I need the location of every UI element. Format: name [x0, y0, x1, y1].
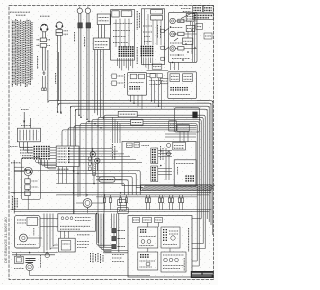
oven lamp circle: [20, 234, 28, 242]
top-right rating plate box 1: [193, 6, 203, 13]
wire E2 leads: [57, 35, 59, 112]
dark component blob: [192, 112, 197, 119]
control resistor R2: [178, 32, 184, 35]
lower right wires: [192, 218, 201, 220]
bus wire y121.5: [150, 122, 199, 267]
M1 label: [87, 208, 89, 213]
TB1 feed wires: [50, 146, 57, 148]
surface unit E1 receptacle blocks: [40, 38, 46, 42]
M2 wires: [27, 176, 29, 179]
row divider wires: [11, 209, 212, 211]
control inner box K2: [186, 25, 195, 31]
surface switch S2 outline: [141, 9, 164, 65]
E1 wire plug ends: [42, 88, 44, 91]
vertical label text mid: [111, 144, 113, 160]
lock wires: [12, 252, 58, 254]
board label text right: [160, 146, 162, 160]
center text columns: [90, 253, 92, 262]
CN wires right: [158, 151, 172, 175]
horizontal wires mid: [14, 170, 96, 172]
oven label text: [33, 228, 35, 236]
diagonal jumper wire: [181, 14, 191, 19]
lower latch box: [58, 214, 96, 231]
cluster C wires: [147, 69, 169, 71]
bus right corner 4: [142, 109, 207, 111]
board top text: [142, 145, 150, 147]
wire SW links: [98, 25, 100, 39]
cluster D contacts: [170, 87, 187, 91]
latch box text: [75, 217, 91, 219]
component row B: [112, 236, 116, 240]
bus label box 2: [131, 120, 144, 125]
junction dots: [170, 20, 196, 63]
top-right small labels: [181, 8, 191, 10]
heater element strip: [93, 164, 96, 175]
surface unit E3 circle: [77, 8, 82, 13]
bus right corner 3: [138, 106, 209, 108]
S2 inner box A: [151, 10, 163, 14]
top-right rating plate box 3: [193, 13, 214, 19]
control drop wires: [170, 62, 172, 70]
left riser wire: [13, 160, 15, 214]
TB1 left wires: [20, 146, 34, 148]
T1 secondary leads: [19, 142, 21, 148]
bus feed line 4: [76, 109, 113, 111]
coil bars: [26, 258, 36, 260]
bus mid drop wires: [113, 117, 121, 143]
right mid component box: [173, 142, 186, 150]
small relay circle: [45, 253, 49, 257]
pilot lamp PL5: [95, 158, 100, 163]
sub-box D text: [163, 254, 184, 256]
control board outline: [122, 142, 196, 186]
bus label box: [118, 111, 137, 117]
wire E3 leads: [78, 14, 80, 23]
callout label box: [99, 177, 115, 182]
sub-box C contacts: [140, 254, 149, 258]
S1 lead wires down: [117, 58, 132, 70]
sub-box C text: [140, 260, 156, 262]
sub-box A contacts: [140, 229, 146, 233]
board left bend fan: [96, 171, 140, 195]
label 45 text: [177, 167, 179, 175]
bus feed line 3: [71, 106, 113, 108]
sub-box B outline: [161, 227, 180, 248]
sub-box A text: [140, 236, 157, 238]
transformer T1: [17, 128, 40, 142]
center vertical bundle: [97, 214, 112, 252]
lower bus wire 3: [96, 196, 197, 198]
cluster D inner text: [170, 94, 190, 96]
cluster D box 1: [170, 74, 180, 82]
left feed label: [55, 73, 57, 84]
pilot lamp PL4: [90, 152, 95, 157]
stat B inner boxes: [130, 74, 137, 79]
top-right rating plate box 2: [203, 6, 213, 13]
lower bus wire 1: [11, 192, 212, 194]
S1 contact grid: [119, 46, 134, 57]
lower small boxes: [118, 200, 127, 206]
mid bundle verticals: [111, 214, 113, 229]
indicator row: [103, 195, 183, 210]
S1 label text: [136, 11, 138, 30]
switch block SW2: [93, 38, 110, 50]
T1 primary leads: [23, 112, 25, 128]
component row A: [112, 228, 116, 232]
surface unit E4 terminal block: [86, 23, 91, 28]
TS1 rows: [58, 148, 142, 164]
title block side text: [183, 258, 185, 271]
wire SW drops: [94, 50, 96, 114]
control vertical wires: [192, 22, 194, 62]
S2 wiring: [144, 9, 146, 45]
oven stat box B outline: [128, 72, 147, 95]
lower text rows left: [112, 254, 124, 256]
wire left long feed: [47, 50, 49, 99]
E2 side terminal dots: [56, 25, 58, 27]
sub-box D outline: [161, 252, 186, 272]
S1 inner box B: [121, 11, 132, 17]
control aux box 1: [196, 23, 203, 29]
mid right inner wires: [165, 133, 196, 135]
latch link wires: [60, 231, 62, 238]
TS1 under text: [58, 168, 70, 170]
left lower bends: [50, 248, 58, 250]
bus right corner 2: [197, 103, 211, 105]
svg-text:DE GRANGE 31-9067-80: DE GRANGE 31-9067-80: [3, 217, 8, 263]
terminal strip TS1 outline: [56, 146, 79, 167]
lower double box: [59, 238, 76, 252]
latch box circles: [61, 217, 64, 220]
control wiring: [184, 20, 197, 22]
enclosure inner wires: [147, 223, 149, 228]
oven box inner text: [17, 244, 36, 246]
pilot lamp PL3: [170, 46, 175, 51]
notes text block: [12, 19, 32, 87]
control aux box 2: [204, 33, 212, 39]
right cluster D outline: [168, 72, 197, 99]
mid cluster C: [150, 74, 155, 78]
component row C: [112, 244, 116, 248]
sub-box B contacts: [163, 229, 167, 241]
S1 inner box A: [112, 11, 119, 17]
S2 inner box B: [151, 16, 163, 20]
left lower verticals: [43, 214, 45, 253]
surface unit E2 circle: [56, 22, 63, 29]
lock label text: [14, 268, 24, 270]
surface unit E2 receptacle blocks: [56, 30, 62, 33]
indicator row labels: [144, 192, 185, 194]
right mid box2 contacts: [185, 175, 194, 181]
cluster C upper boxes: [152, 64, 162, 69]
component chain mid: [89, 157, 92, 160]
cluster D box 2: [183, 74, 193, 82]
cluster C leads: [151, 78, 153, 101]
S1 wiring: [115, 19, 117, 47]
sub-box A outline: [138, 227, 158, 248]
label unit text mid: [84, 37, 86, 47]
left label text lower: [11, 196, 13, 210]
control enclosure outline: [128, 216, 192, 278]
surface unit E4 circle: [85, 8, 90, 13]
switch contact slashes: [165, 28, 169, 31]
board top component B: [134, 143, 140, 148]
convection motor M1: [83, 199, 92, 208]
lower bus wire 2: [56, 194, 209, 196]
control resistor R3: [178, 47, 184, 50]
small box mid right: [169, 121, 176, 131]
S2 label text: [157, 25, 159, 38]
wire left feed 2: [57, 52, 59, 101]
control inner box K3: [182, 38, 192, 44]
surface unit E1 circle: [41, 25, 48, 32]
right mid box 2: [174, 160, 196, 186]
TS1 drop wires: [73, 167, 75, 214]
wire E1 vertical runs: [42, 76, 44, 88]
TB1 bottom bends: [36, 160, 57, 169]
oven control outline: [168, 12, 197, 62]
surface unit E3 terminal block: [78, 23, 83, 28]
bus wire y123.6: [150, 124, 197, 261]
clock motor M2: [24, 167, 32, 175]
S2 lead wires down: [141, 58, 153, 70]
door lock solenoid: [15, 256, 24, 263]
TB1 labels: [20, 146, 33, 148]
pilot lamp PL2: [170, 31, 175, 36]
bus wire y125.7: [74, 126, 197, 214]
connector CN2: [151, 166, 158, 182]
surface switch S1 outline: [111, 10, 135, 61]
mid cluster A label: [124, 74, 126, 88]
sub-box B lamp: [171, 236, 175, 240]
bus wire y117.3: [150, 117, 203, 243]
bus wire y119.4: [150, 119, 201, 218]
wire E1 leads: [42, 32, 44, 38]
T1 arrow mark: [23, 121, 25, 125]
sub-box A lamps: [141, 240, 145, 244]
oven inner box: [27, 217, 38, 225]
oven cavity box: [15, 216, 40, 248]
connector CN1: [151, 148, 158, 164]
bake element hatched bar: [141, 185, 215, 191]
stat B leads: [130, 95, 132, 100]
bus right corner 1: [197, 101, 213, 103]
lower wires into enclosure: [104, 250, 128, 252]
bake element leads: [136, 187, 141, 189]
sub-box D lamps: [164, 258, 168, 262]
label SURFACE UNITS: [37, 56, 39, 69]
bus wire y127.8: [68, 128, 197, 146]
lock motor circle: [26, 263, 33, 270]
stat B contacts: [129, 86, 140, 90]
sub-box C lamp: [146, 262, 150, 266]
burner caption text: [40, 15, 50, 17]
board inner verticals: [165, 148, 167, 180]
control resistor R1: [178, 19, 184, 22]
S2 side component rows: [161, 29, 164, 32]
mid cluster A boxes: [112, 74, 117, 78]
sub-box C outline: [138, 252, 158, 270]
double box label: [77, 241, 89, 243]
callout wires: [56, 183, 96, 185]
control box K1: [186, 14, 195, 22]
bus wire y115.2: [150, 115, 205, 248]
notes header text: [10, 11, 30, 13]
pilot lamp PL1: [170, 18, 175, 23]
right mid circles: [167, 143, 171, 147]
ground mark E1: [43, 71, 45, 74]
oven box wires: [40, 218, 58, 220]
S2 contact grid: [141, 46, 154, 57]
T1 label: [21, 124, 31, 126]
junction dots main: [13, 100, 161, 253]
sub-box B text: [169, 230, 179, 232]
left lower text 2: [11, 162, 21, 164]
mid right label box: [177, 125, 189, 132]
clock motor enclosure: [21, 158, 40, 200]
mid right outline box: [175, 108, 200, 132]
enclosure inner label: [188, 228, 190, 252]
wire E4 leads: [86, 14, 88, 23]
switch block SW1: [97, 14, 110, 25]
terminal board TB1 contacts: [34, 146, 50, 160]
enclosure top row boxes: [133, 218, 140, 223]
bus wire y129.9: [62, 130, 197, 146]
board top component A: [127, 143, 133, 148]
M2 component stack: [25, 179, 30, 184]
E1 side terminal dots: [40, 28, 42, 30]
title block: [191, 271, 214, 278]
